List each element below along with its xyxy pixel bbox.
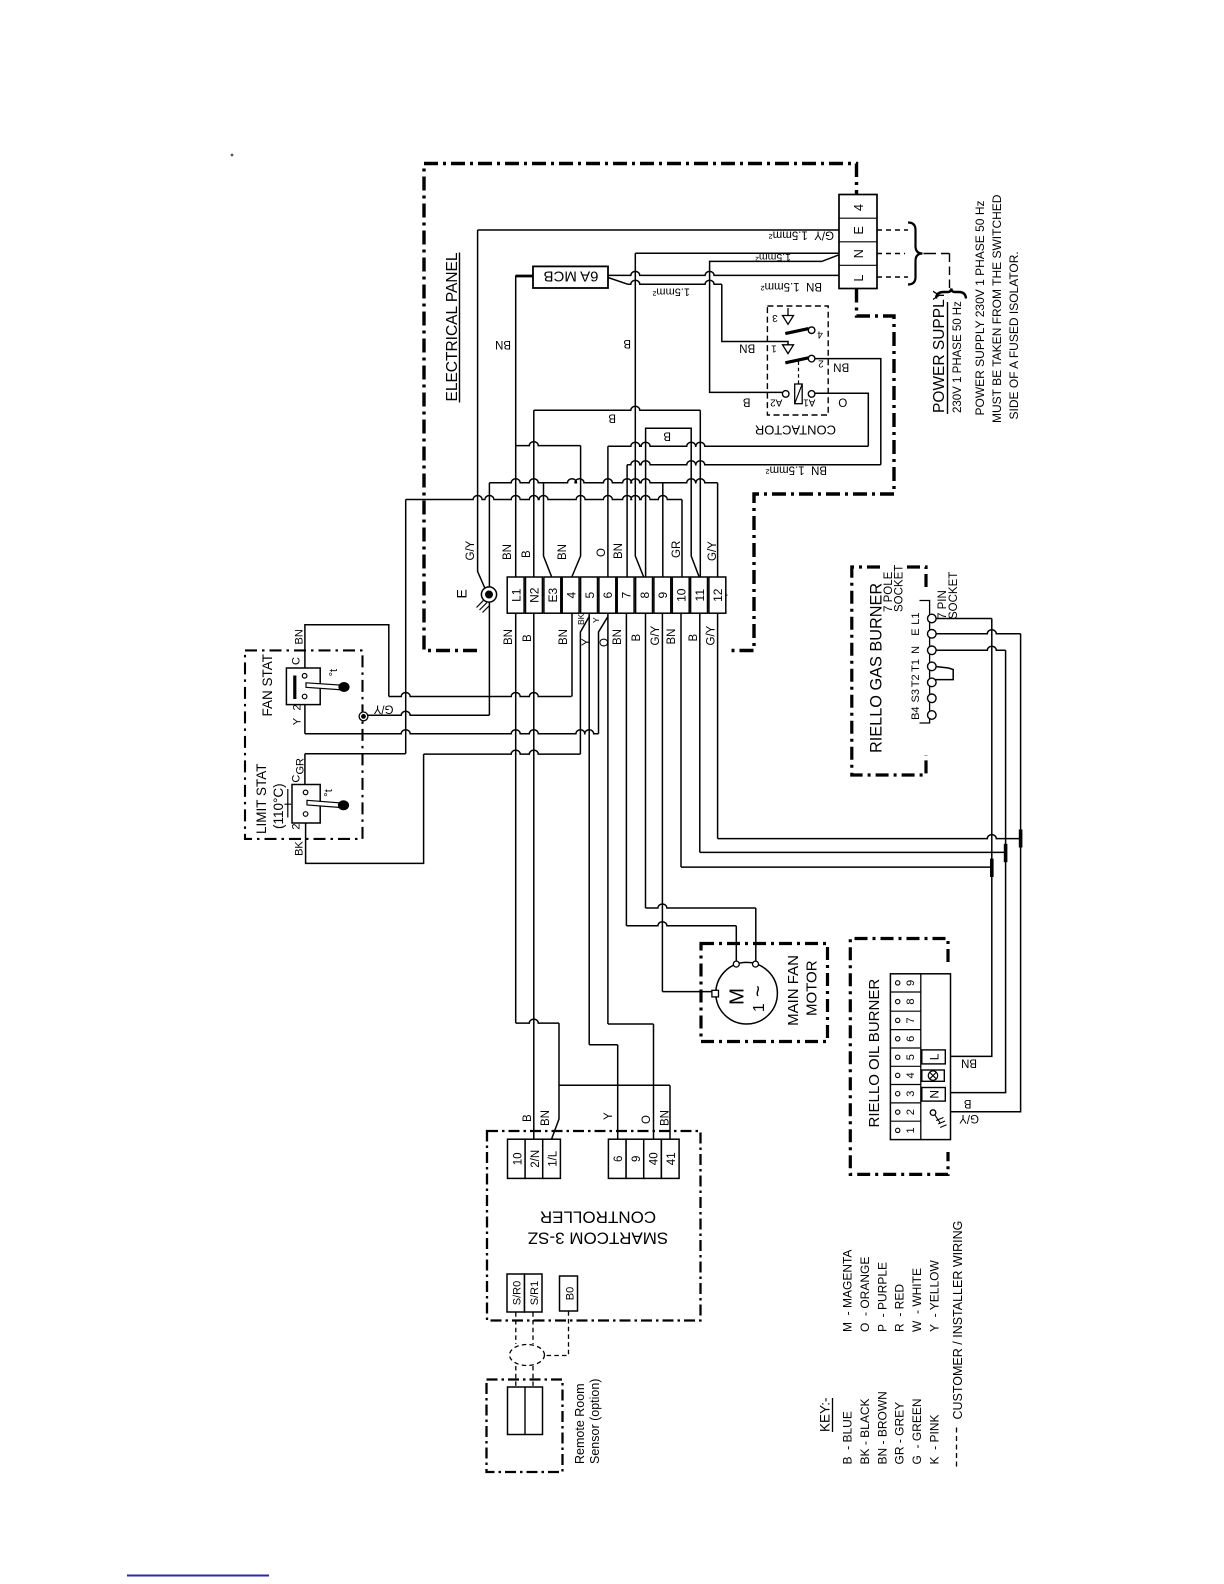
riello oil burner enclosure (dash-dot) bbox=[850, 939, 948, 1175]
svg-text:N: N bbox=[910, 646, 922, 654]
svg-text:6: 6 bbox=[601, 592, 615, 599]
svg-text:BN: BN bbox=[660, 1110, 672, 1126]
oil burner terminal strip bbox=[890, 974, 950, 1140]
svg-text:~: ~ bbox=[748, 985, 770, 997]
contactor coil bbox=[795, 384, 803, 404]
socket pin E bbox=[928, 630, 937, 639]
contactor coil terminal A1 bbox=[808, 391, 815, 398]
socket pin L1 bbox=[928, 614, 937, 623]
wire O coil A1 to terminal 6 bbox=[608, 442, 868, 446]
wire G/Y down to terminal 9 bbox=[662, 483, 664, 577]
svg-text:2: 2 bbox=[818, 358, 824, 369]
svg-text:A2: A2 bbox=[770, 397, 783, 408]
wire O fan stat 2 to terminal 6 net bbox=[305, 730, 599, 734]
wire BN terminal 4 down bbox=[571, 614, 573, 697]
wire G/Y run to burner joint bbox=[718, 835, 1021, 839]
controller terminal 6 bbox=[608, 1139, 626, 1178]
svg-text:10: 10 bbox=[675, 588, 689, 602]
svg-text:B: B bbox=[663, 430, 671, 442]
svg-text:SOCKET: SOCKET bbox=[948, 572, 960, 619]
svg-text:2/N: 2/N bbox=[530, 1150, 542, 1168]
svg-text:Y: Y bbox=[603, 1112, 615, 1120]
joint bar G/Y bbox=[1019, 830, 1023, 848]
svg-text:°t: °t bbox=[323, 789, 335, 796]
wire BN to fan stat C bbox=[389, 693, 572, 697]
svg-text:12: 12 bbox=[711, 588, 725, 602]
svg-text:1: 1 bbox=[905, 1127, 917, 1133]
wire G/Y down to oil burner earth bbox=[936, 634, 1021, 1112]
controller terminal 2/N bbox=[525, 1139, 543, 1178]
smartcom controller enclosure bbox=[487, 1131, 701, 1321]
wire BN gas socket L1 bbox=[935, 618, 992, 620]
oil burner pin circle 9 bbox=[896, 981, 900, 985]
svg-text:K - PINK: K - PINK bbox=[928, 1414, 942, 1464]
svg-text:4: 4 bbox=[564, 592, 578, 599]
wire B loop leg to terminal 8 bbox=[645, 444, 647, 577]
wire Y terminal 5 down with branch bbox=[580, 614, 589, 755]
wire O into fan stat terminal 2 bbox=[304, 699, 306, 734]
wire O terminal 6 down with branch bbox=[599, 614, 608, 734]
svg-text:O: O bbox=[596, 548, 608, 557]
svg-text:C: C bbox=[291, 775, 303, 783]
wire B gas socket N bbox=[935, 646, 1006, 650]
panel terminal 10 bbox=[672, 577, 689, 613]
svg-text:CONTACTOR: CONTACTOR bbox=[755, 422, 836, 437]
contactor blade 1-2 bbox=[785, 358, 808, 363]
wire G/Y earth bonding row bbox=[489, 479, 717, 483]
svg-text:GR: GR bbox=[294, 758, 306, 775]
wire G/Y terminal 9 down bbox=[661, 614, 663, 992]
svg-text:R - RED: R - RED bbox=[893, 1284, 907, 1332]
svg-text:BN: BN bbox=[739, 342, 755, 354]
contactor pin 1 bbox=[783, 345, 794, 354]
7 pin socket bbox=[920, 601, 930, 724]
main fan motor enclosure bbox=[701, 944, 828, 1042]
panel terminal 9 bbox=[654, 577, 671, 613]
svg-text:E: E bbox=[910, 628, 922, 635]
svg-text:G/Y: G/Y bbox=[707, 541, 719, 561]
wire BN 1.5mm2 contactor pin 2 to terminal 7 bbox=[627, 461, 881, 465]
wire BN terminal 7 down bbox=[625, 614, 627, 926]
wire GR down left side bbox=[405, 500, 407, 754]
contactor enclosure (dashed) bbox=[767, 306, 828, 415]
svg-text:M: M bbox=[726, 988, 749, 1005]
earth hatching at node E bbox=[477, 600, 490, 613]
socket pin S3 bbox=[928, 694, 937, 703]
wire BN jog bbox=[516, 1019, 559, 1023]
svg-text:BN: BN bbox=[612, 629, 624, 645]
dashed wire B0 bbox=[545, 1311, 569, 1355]
svg-text:POWER SUPPLY: POWER SUPPLY bbox=[931, 290, 948, 413]
page dot bbox=[231, 154, 234, 157]
svg-text:11: 11 bbox=[693, 589, 707, 602]
fan stat earth point bbox=[359, 712, 368, 721]
wire down to terminal 10 bbox=[681, 500, 683, 578]
svg-text:BN: BN bbox=[540, 1110, 552, 1126]
svg-text:RIELLO OIL BURNER: RIELLO OIL BURNER bbox=[866, 979, 883, 1128]
limit stat switch bbox=[292, 785, 320, 824]
motor terminal 1 bbox=[733, 961, 739, 967]
joint bar BN bbox=[990, 859, 994, 877]
svg-text:B: B bbox=[608, 412, 616, 424]
svg-text:3: 3 bbox=[772, 312, 778, 323]
main fan motor M1 bbox=[716, 962, 778, 1024]
remote room sensor block bbox=[508, 1387, 543, 1435]
svg-text:O - ORANGE: O - ORANGE bbox=[858, 1257, 872, 1332]
wire BN to motor bbox=[626, 922, 736, 926]
wire GR into limit stat C bbox=[304, 754, 306, 791]
dashed sensor wire bbox=[515, 1366, 517, 1387]
svg-text:BN: BN bbox=[833, 361, 849, 373]
svg-text:1: 1 bbox=[751, 1003, 768, 1012]
panel terminal 11 bbox=[691, 577, 708, 613]
svg-text:B: B bbox=[631, 634, 643, 642]
svg-text:BK: BK bbox=[293, 841, 305, 856]
svg-text:BN: BN bbox=[495, 338, 511, 350]
oil burner pin circle 7 bbox=[896, 1018, 900, 1022]
wire BN up to contactor pin 2 bbox=[815, 359, 881, 465]
svg-text:BN: BN bbox=[502, 544, 514, 560]
svg-text:GR: GR bbox=[671, 541, 683, 558]
svg-text:9: 9 bbox=[905, 980, 917, 986]
svg-text:B: B bbox=[522, 634, 534, 642]
oil burner pin circle 2 bbox=[896, 1110, 900, 1114]
fan stat switch bbox=[286, 668, 320, 705]
dashed wire L to supply bbox=[877, 276, 908, 278]
svg-text:BN: BN bbox=[557, 544, 569, 560]
dashed wire N to supply bbox=[877, 253, 905, 255]
svg-text:9: 9 bbox=[631, 1156, 643, 1162]
svg-text:9: 9 bbox=[656, 592, 670, 599]
fan stat actuator rod bbox=[306, 683, 342, 690]
contactor coil link (dashed) bbox=[798, 362, 800, 384]
svg-text:6: 6 bbox=[613, 1156, 625, 1162]
socket pin B4 bbox=[928, 711, 937, 720]
wire O down to terminal 6 bbox=[607, 446, 609, 577]
svg-text:MUST BE TAKEN FROM THE SWITCHE: MUST BE TAKEN FROM THE SWITCHED bbox=[990, 194, 1004, 423]
svg-text:FAN STAT: FAN STAT bbox=[260, 654, 275, 717]
wire B terminal N2 down to controller 2/N bbox=[533, 614, 535, 1140]
svg-text:G/Y: G/Y bbox=[373, 703, 393, 715]
svg-text:Y - YELLOW: Y - YELLOW bbox=[928, 1260, 942, 1332]
svg-text:N: N bbox=[928, 1090, 942, 1099]
wire O jog to controller 40 bbox=[608, 1023, 654, 1025]
svg-text:B0: B0 bbox=[564, 1287, 576, 1300]
svg-text:CONTROLLER: CONTROLLER bbox=[540, 1208, 656, 1227]
dashed wiring sample bbox=[956, 1428, 958, 1469]
wire G/Y earth node down bbox=[488, 483, 490, 716]
wire Y into controller 6 bbox=[617, 1045, 619, 1139]
svg-text:G/Y: G/Y bbox=[706, 625, 718, 645]
svg-text:N: N bbox=[852, 249, 866, 258]
svg-text:T1: T1 bbox=[910, 659, 922, 672]
svg-text:Y: Y bbox=[292, 717, 304, 725]
fan stat terminal 2 bbox=[302, 694, 307, 699]
svg-text:1.5mm²: 1.5mm² bbox=[755, 251, 791, 263]
svg-text:41: 41 bbox=[666, 1152, 678, 1165]
oil burner pin circle 5 bbox=[896, 1055, 900, 1059]
svg-text:L: L bbox=[852, 275, 866, 282]
wire B loop leg to terminal 11 bbox=[691, 443, 699, 577]
limit stat terminal C bbox=[303, 790, 308, 795]
wire BN run to burner joint bbox=[681, 866, 992, 868]
remote room sensor enclosure bbox=[487, 1380, 563, 1473]
svg-text:B4: B4 bbox=[910, 706, 922, 719]
dashed wire E to supply bbox=[877, 229, 908, 231]
svg-text:BK: BK bbox=[576, 613, 586, 625]
svg-text:BN - BROWN: BN - BROWN bbox=[875, 1391, 889, 1464]
wire G/Y gas socket E bbox=[935, 630, 1021, 634]
svg-text:N2: N2 bbox=[528, 587, 542, 603]
svg-text:S3: S3 bbox=[910, 689, 922, 702]
svg-text:B: B bbox=[688, 634, 700, 642]
svg-text:POWER SUPPLY 230V 1 PHASE 50 H: POWER SUPPLY 230V 1 PHASE 50 Hz bbox=[973, 201, 987, 416]
wire N to contactor coil A2 bbox=[710, 255, 839, 393]
svg-text:7: 7 bbox=[619, 592, 633, 599]
svg-text:B: B bbox=[623, 337, 631, 349]
panel terminal 7 bbox=[617, 577, 634, 613]
svg-text:2: 2 bbox=[905, 1109, 917, 1115]
svg-text:L: L bbox=[928, 1053, 942, 1060]
svg-text:W - WHITE: W - WHITE bbox=[910, 1268, 924, 1332]
motor terminal 2 bbox=[753, 961, 759, 967]
oil burner pin circle 1 bbox=[896, 1128, 900, 1132]
svg-text:SOCKET: SOCKET bbox=[894, 565, 906, 612]
wire B neutral bridge loop bbox=[646, 428, 692, 444]
svg-text:SMARTCOM 3-SZ: SMARTCOM 3-SZ bbox=[528, 1229, 668, 1248]
wire B down to terminal N2 bbox=[533, 410, 535, 577]
wire G/Y 1.5mm2 from E terminal bbox=[478, 229, 839, 231]
panel terminal 6 bbox=[599, 577, 616, 613]
svg-text:P - PURPLE: P - PURPLE bbox=[875, 1262, 889, 1332]
wire Y jog to controller 6 bbox=[589, 1044, 618, 1046]
svg-text:CUSTOMER / INSTALLER WIRING: CUSTOMER / INSTALLER WIRING bbox=[951, 1221, 965, 1420]
wire G/Y down to earth node E bbox=[478, 230, 485, 588]
wire B terminal 8 down bbox=[645, 614, 647, 909]
svg-text:O: O bbox=[838, 396, 847, 408]
circuit breaker 6A MCB bbox=[533, 266, 608, 288]
svg-text:GR - GREY: GR - GREY bbox=[893, 1402, 907, 1465]
svg-text:MOTOR: MOTOR bbox=[804, 960, 821, 1016]
svg-text:BK - BLACK: BK - BLACK bbox=[858, 1398, 872, 1464]
wire G/Y down to terminal E3 bbox=[544, 483, 552, 577]
svg-text:E: E bbox=[454, 589, 470, 598]
wire B terminal 11 down bbox=[699, 614, 701, 853]
contactor blade 3-4 bbox=[785, 329, 808, 334]
controller terminal 40 bbox=[644, 1139, 662, 1178]
svg-text:1.5mm²: 1.5mm² bbox=[652, 286, 690, 298]
svg-text:A1: A1 bbox=[803, 397, 816, 408]
oil burner pin circle 8 bbox=[896, 999, 900, 1003]
wire BN into controller 41 bbox=[669, 1085, 671, 1139]
svg-text:LIMIT STAT: LIMIT STAT bbox=[254, 763, 269, 834]
svg-text:6A MCB: 6A MCB bbox=[543, 267, 598, 284]
wire G/Y terminal 12 down bbox=[717, 614, 719, 839]
wire B into motor terminal bbox=[755, 908, 757, 961]
svg-text:40: 40 bbox=[649, 1152, 661, 1165]
limit stat terminal 2 bbox=[303, 812, 308, 817]
oil burner terminal N bbox=[922, 1088, 946, 1102]
wire Y branch down to controller bbox=[588, 617, 590, 1045]
terminal strip link line bbox=[507, 594, 727, 596]
svg-text:BN: BN bbox=[294, 629, 306, 644]
svg-text:Sensor (option): Sensor (option) bbox=[588, 1379, 602, 1464]
wire O up to contactor coil A1 bbox=[815, 393, 868, 446]
svg-text:4: 4 bbox=[905, 1072, 917, 1078]
svg-text:Remote Room: Remote Room bbox=[573, 1383, 587, 1464]
wire GR limit stat C to terminal 10 bbox=[406, 496, 682, 500]
svg-text:BN: BN bbox=[613, 543, 625, 559]
wire B down to terminal 11 bbox=[699, 410, 701, 576]
svg-text:Y: Y bbox=[581, 638, 593, 646]
svg-text:MAIN FAN: MAIN FAN bbox=[785, 955, 802, 1026]
wire 6A MCB input from live bbox=[516, 276, 533, 278]
svg-text:10: 10 bbox=[512, 1152, 524, 1165]
limit stat bimetal bbox=[285, 789, 292, 818]
socket pin T2 bbox=[928, 678, 937, 687]
wire BN down to terminal 7 bbox=[626, 465, 628, 577]
wire B down to panel terminal 8 bbox=[635, 253, 643, 576]
terminal block L N E 4 bbox=[839, 195, 877, 289]
wire G/Y to motor frame bbox=[662, 991, 712, 993]
panel terminal N2 bbox=[526, 577, 543, 613]
svg-text:G/Y: G/Y bbox=[465, 540, 477, 560]
svg-text:6: 6 bbox=[905, 1036, 917, 1042]
wire O branch down to controller bbox=[607, 617, 609, 1025]
svg-text:G/Y: G/Y bbox=[959, 1112, 979, 1124]
svg-text:E: E bbox=[852, 226, 866, 234]
panel terminal 12 bbox=[709, 577, 726, 613]
electrical panel enclosure (dash-dot boundary) bbox=[424, 164, 857, 651]
twisted pair ellipse bbox=[510, 1345, 545, 1366]
controller terminal 9 bbox=[626, 1139, 644, 1178]
svg-text:2: 2 bbox=[292, 704, 304, 710]
svg-text:S/R1: S/R1 bbox=[529, 1281, 541, 1305]
earth node E bbox=[481, 587, 496, 602]
svg-text:2: 2 bbox=[291, 823, 303, 829]
wire B down to oil burner N bbox=[945, 650, 1005, 1092]
wire BN into fan stat terminal C bbox=[305, 625, 389, 697]
oil burner pin circle 3 bbox=[896, 1092, 900, 1096]
controller terminal S/R1 bbox=[525, 1274, 543, 1312]
svg-text:E3: E3 bbox=[546, 588, 560, 603]
panel terminal 5 bbox=[581, 577, 598, 613]
dashed wire down bbox=[949, 254, 951, 289]
wire BK into limit stat terminal 2 bbox=[306, 754, 424, 863]
svg-text:B: B bbox=[964, 1097, 972, 1109]
svg-text:8: 8 bbox=[905, 999, 917, 1005]
contactor pin 2 bbox=[808, 355, 815, 362]
oil burner terminal L bbox=[922, 1050, 946, 1064]
wire BN branch to controller 41 bbox=[559, 1084, 670, 1086]
wire G/Y to fan stat frame bbox=[364, 711, 490, 715]
controller terminal 10 bbox=[508, 1139, 526, 1178]
wire BN down to oil burner L bbox=[945, 619, 992, 1057]
svg-text:C: C bbox=[291, 657, 303, 665]
svg-text:°t: °t bbox=[328, 669, 340, 676]
brace grouping supply wires bbox=[908, 223, 923, 285]
svg-text:5: 5 bbox=[905, 1054, 917, 1060]
socket pin N bbox=[928, 646, 937, 655]
dashed sensor wire bbox=[532, 1366, 534, 1387]
dashed sensor wires bbox=[515, 1312, 517, 1344]
controller terminal B0 bbox=[560, 1276, 578, 1311]
contactor pin 3 bbox=[783, 308, 794, 324]
fan stat terminal C bbox=[302, 674, 307, 679]
motor earth terminal bbox=[712, 990, 719, 997]
svg-text:L1: L1 bbox=[509, 588, 523, 602]
svg-text:O: O bbox=[599, 638, 611, 647]
svg-text:G/Y: G/Y bbox=[650, 625, 662, 645]
svg-text:B - BLUE: B - BLUE bbox=[841, 1411, 855, 1464]
svg-text:G/Y 1.5mm²: G/Y 1.5mm² bbox=[769, 229, 834, 241]
controller terminal 41 bbox=[661, 1139, 679, 1178]
contactor pin 4 bbox=[808, 327, 815, 334]
oil burner pin circle 4 bbox=[896, 1073, 900, 1077]
wire B neutral row N2 to terminal 11 bbox=[534, 406, 701, 410]
wire BN terminal 10 down bbox=[680, 614, 682, 868]
svg-text:8: 8 bbox=[638, 592, 652, 599]
controller terminal S/R0 bbox=[507, 1274, 525, 1312]
wire BN down to panel terminal L1 bbox=[515, 275, 517, 577]
svg-text:4: 4 bbox=[852, 204, 866, 211]
svg-text:SIDE OF A FUSED ISOLATOR.: SIDE OF A FUSED ISOLATOR. bbox=[1007, 251, 1021, 419]
svg-text:5: 5 bbox=[583, 592, 597, 599]
svg-text:(110°C): (110°C) bbox=[271, 783, 286, 829]
wire B (neutral) from N terminal bbox=[635, 252, 839, 254]
svg-text:G - GREEN: G - GREEN bbox=[910, 1398, 924, 1464]
wire BN into motor terminal bbox=[735, 926, 737, 961]
svg-text:3: 3 bbox=[905, 1091, 917, 1097]
limit stat actuator rod bbox=[307, 800, 342, 807]
panel terminal E3 bbox=[544, 577, 561, 613]
brace over POWER SUPPLY text bbox=[936, 289, 966, 299]
svg-text:Y: Y bbox=[591, 617, 601, 623]
wire B to motor bbox=[646, 904, 756, 908]
wire O into controller 40 bbox=[653, 1024, 655, 1139]
oil burner lamp bbox=[922, 1070, 945, 1081]
wire B run to burner joint bbox=[700, 851, 1006, 853]
wire BN (live) from L terminal bbox=[516, 271, 839, 275]
svg-text:BN 1.5mm²: BN 1.5mm² bbox=[760, 280, 822, 292]
svg-text:S/R0: S/R0 bbox=[512, 1281, 524, 1305]
controller terminal 1/L bbox=[543, 1139, 561, 1178]
svg-text:ELECTRICAL PANEL: ELECTRICAL PANEL bbox=[444, 252, 461, 401]
wire BN into controller 1/L bbox=[552, 1023, 560, 1139]
svg-text:BN: BN bbox=[961, 1057, 977, 1069]
wire BN from 6A MCB output to contactor pin 1 bbox=[608, 278, 628, 285]
contactor coil terminal A2 bbox=[782, 391, 789, 398]
socket pin T1 bbox=[928, 662, 937, 671]
svg-text:BN: BN bbox=[503, 629, 515, 645]
svg-text:BN 1.5mm²: BN 1.5mm² bbox=[765, 464, 827, 476]
wire jumper T1-T2 on gas socket bbox=[934, 666, 953, 679]
svg-text:O: O bbox=[641, 1115, 653, 1124]
joint bar B bbox=[1004, 844, 1008, 862]
wire G/Y down to terminal 12 bbox=[717, 483, 719, 577]
dash-dot wire to power supply note bbox=[924, 253, 950, 255]
svg-text:T2: T2 bbox=[910, 674, 922, 687]
svg-text:B: B bbox=[522, 1114, 534, 1122]
svg-text:BN: BN bbox=[558, 629, 570, 645]
wire down to terminal 4 bbox=[572, 446, 581, 577]
svg-text:1: 1 bbox=[771, 343, 777, 354]
riello gas burner enclosure (dash-dot) bbox=[902, 567, 926, 587]
wire BN terminal L1 down to controller bbox=[515, 614, 517, 1024]
svg-text:BN: BN bbox=[666, 629, 678, 645]
svg-text:7: 7 bbox=[905, 1017, 917, 1023]
panel terminal 4 bbox=[562, 577, 579, 613]
